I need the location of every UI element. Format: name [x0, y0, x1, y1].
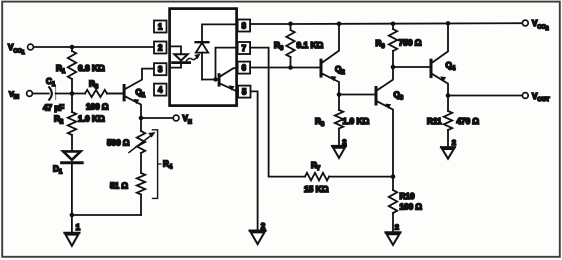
- terminal VCC1: [28, 44, 34, 50]
- node rail Q2 collector: [337, 22, 342, 27]
- pin 3: [154, 63, 167, 75]
- svg-text:2: 2: [158, 44, 163, 53]
- node Q1 emitter / VE: [139, 116, 144, 121]
- svg-text:2: 2: [261, 222, 266, 231]
- transistor Q2: [320, 59, 323, 78]
- op-to-coupler IC body U1: [170, 9, 237, 106]
- svg-text:47 µF: 47 µF: [43, 104, 64, 113]
- terminal VIN: [27, 91, 33, 97]
- svg-text:Q3: Q3: [394, 91, 404, 102]
- svg-text:2: 2: [452, 138, 456, 147]
- svg-text:6.8 KΩ: 6.8 KΩ: [78, 63, 105, 73]
- resistor R11 470: [447, 96, 449, 112]
- ground 3 (R8): [332, 145, 346, 147]
- transistor Q1: [107, 93, 123, 95]
- potentiometer 500 Ω (part of R4): [140, 118, 142, 131]
- terminal VCC2: [522, 20, 528, 26]
- pin 5: [238, 86, 251, 98]
- svg-text:8: 8: [242, 22, 247, 31]
- wire pin8 to VCC2 rail: [250, 22, 522, 25]
- svg-text:750 Ω: 750 Ω: [399, 38, 422, 48]
- resistor R6 9.1K: [290, 24, 292, 30]
- svg-text:R10: R10: [400, 192, 415, 201]
- svg-text:Q2: Q2: [335, 65, 345, 76]
- node Q2 emitter: [337, 92, 342, 97]
- wire to VE: [141, 117, 173, 119]
- svg-text:D1: D1: [53, 165, 63, 176]
- svg-text:VIN: VIN: [9, 90, 19, 101]
- svg-text:R6: R6: [274, 41, 284, 52]
- svg-text:51 Ω: 51 Ω: [110, 182, 128, 191]
- wire VCC1 rail to pin 2: [33, 46, 154, 48]
- wire VIN to C1: [32, 93, 48, 95]
- transistor Q4: [430, 59, 433, 79]
- wire R9 node to Q4 base: [393, 66, 430, 68]
- svg-text:4: 4: [158, 86, 163, 95]
- svg-text:2: 2: [395, 223, 399, 232]
- LED inside IC: [174, 54, 187, 60]
- node base/pin7: [213, 77, 217, 81]
- bracket R4: [153, 130, 158, 199]
- wire Q4 emitter to VOUT: [448, 95, 522, 97]
- wire LED cathode to pin3: [171, 63, 181, 68]
- svg-text:1: 1: [158, 23, 163, 32]
- node R9 bottom: [391, 65, 396, 70]
- svg-text:R1: R1: [56, 64, 66, 75]
- resistor R9 750: [392, 24, 394, 29]
- wire photodiode to pin8: [202, 24, 238, 42]
- svg-text:R2: R2: [54, 115, 64, 126]
- capacitor C1: [49, 87, 52, 99]
- terminal VOUT: [522, 93, 528, 99]
- pin 6: [238, 62, 251, 74]
- svg-text:1.0 KΩ: 1.0 KΩ: [343, 116, 370, 126]
- svg-text:R11: R11: [427, 117, 442, 126]
- node R1 top: [70, 45, 75, 50]
- wire pot to 51 Ω: [140, 153, 142, 173]
- ground 5 (R11): [441, 146, 455, 148]
- light arrow: [187, 57, 197, 61]
- svg-text:5: 5: [242, 88, 247, 97]
- ground 4 (R10): [386, 231, 401, 233]
- terminal VE: [173, 115, 179, 121]
- svg-text:R3: R3: [89, 80, 99, 91]
- wire Q2 emitter to Q3 base: [339, 94, 375, 96]
- svg-text:2: 2: [342, 138, 346, 147]
- ground 1: [71, 215, 73, 233]
- node rail R6: [288, 22, 293, 27]
- resistor R3: [85, 90, 107, 97]
- svg-text:R4: R4: [163, 160, 173, 171]
- svg-text:C1: C1: [46, 77, 56, 88]
- ground 2 (pin5): [250, 230, 266, 232]
- svg-text:3: 3: [158, 65, 163, 74]
- wire base to pin7: [216, 48, 238, 80]
- resistor R7 15K: [305, 173, 329, 181]
- svg-text:9.1 KΩ: 9.1 KΩ: [297, 40, 324, 50]
- photodiode inside IC: [196, 41, 209, 43]
- svg-text:100 Ω: 100 Ω: [86, 103, 109, 112]
- resistor R10 100: [392, 177, 394, 190]
- node Q4 emitter: [446, 93, 451, 98]
- svg-text:100 Ω: 100 Ω: [400, 203, 423, 212]
- pin 4: [154, 84, 167, 96]
- svg-text:1.0 KΩ: 1.0 KΩ: [78, 114, 105, 124]
- pin 2: [154, 42, 167, 54]
- pin 8: [238, 20, 251, 32]
- svg-text:500 Ω: 500 Ω: [107, 139, 130, 148]
- node rail R9: [391, 22, 396, 27]
- wire C1 to node: [56, 93, 85, 95]
- svg-text:R7: R7: [311, 161, 321, 172]
- diode D1: [63, 151, 80, 159]
- pin 7: [238, 42, 251, 54]
- resistor R1: [71, 47, 73, 51]
- svg-text:VCC2: VCC2: [532, 19, 549, 32]
- wire pin5 to ground: [251, 91, 258, 230]
- svg-text:R8: R8: [315, 117, 325, 128]
- svg-text:VCC1: VCC1: [8, 43, 25, 56]
- wire pin7 down to R7: [250, 48, 305, 177]
- svg-text:Q4: Q4: [446, 61, 456, 72]
- svg-text:470 Ω: 470 Ω: [457, 117, 480, 126]
- svg-text:7: 7: [242, 44, 246, 53]
- resistor R8 1.0K: [338, 95, 340, 111]
- pin 1: [154, 21, 167, 33]
- node bottom left: [70, 213, 75, 218]
- svg-text:R9: R9: [376, 39, 386, 50]
- svg-text:6: 6: [242, 64, 247, 73]
- svg-text:15 KΩ: 15 KΩ: [304, 184, 329, 194]
- resistor R2: [71, 94, 73, 113]
- phototransistor inside IC: [218, 73, 221, 86]
- transistor Q3: [375, 86, 378, 106]
- node R6 bottom: [288, 65, 293, 70]
- wire pin6 to Q2 base: [250, 67, 319, 69]
- node R7/R10/Q3 emitter: [391, 174, 396, 179]
- svg-text:VOUT: VOUT: [532, 92, 550, 103]
- node R1/R2/C1: [70, 91, 75, 96]
- svg-text:1: 1: [76, 223, 81, 232]
- wire pin2 to LED anode: [171, 46, 181, 53]
- node rail Q4 collector: [446, 21, 451, 26]
- wire bottom left: [72, 214, 141, 216]
- svg-text:VE: VE: [183, 114, 192, 125]
- svg-text:Q1: Q1: [136, 88, 146, 99]
- resistor 51 Ω (part of R4): [137, 173, 145, 195]
- wire photodiode anode to base: [202, 79, 218, 81]
